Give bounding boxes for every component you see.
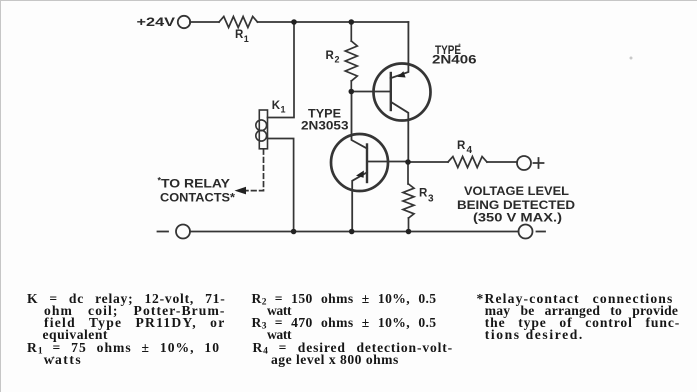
svg-text:TYPE: TYPE bbox=[308, 108, 341, 120]
svg-text:R: R bbox=[235, 29, 244, 41]
svg-text:R: R bbox=[419, 188, 428, 200]
svg-text:+24V: +24V bbox=[137, 17, 176, 29]
svg-text:2: 2 bbox=[335, 55, 340, 65]
svg-text:4: 4 bbox=[467, 145, 473, 156]
svg-text:*: * bbox=[158, 176, 162, 186]
svg-text:1: 1 bbox=[281, 105, 286, 115]
svg-text:TO RELAY: TO RELAY bbox=[161, 179, 230, 191]
svg-text:CONTACTS*: CONTACTS* bbox=[160, 192, 236, 204]
svg-text:1: 1 bbox=[244, 34, 249, 44]
svg-text:3: 3 bbox=[428, 194, 434, 205]
svg-text:2N406: 2N406 bbox=[432, 55, 477, 67]
svg-text:2N3053: 2N3053 bbox=[301, 121, 349, 133]
svg-text:K: K bbox=[272, 100, 281, 112]
svg-text:VOLTAGE LEVEL: VOLTAGE LEVEL bbox=[464, 186, 569, 198]
svg-text:R: R bbox=[326, 50, 335, 62]
svg-text:BEING DETECTED: BEING DETECTED bbox=[457, 200, 575, 212]
svg-text:(350 V MAX.): (350 V MAX.) bbox=[473, 212, 562, 224]
svg-text:R: R bbox=[457, 140, 466, 152]
